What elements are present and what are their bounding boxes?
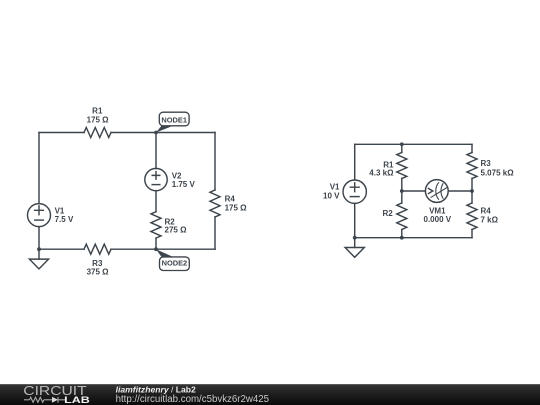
resistor R3 (right circuit) <box>467 153 477 179</box>
svg-text:http://circuitlab.com/c5bvkz6r: http://circuitlab.com/c5bvkz6r2w425 <box>116 394 269 405</box>
footer logo wire-resistor-diode graphic <box>24 397 66 403</box>
voltage source V2 <box>145 168 167 190</box>
junction: NODE1 <box>154 131 158 135</box>
svg-text:NODE1: NODE1 <box>161 116 187 125</box>
svg-text:375 Ω: 375 Ω <box>87 268 110 277</box>
wire: right circuit left branch lower <box>354 203 356 237</box>
wire: middle branch from NODE1 to V2 <box>155 133 157 169</box>
wire: right circuit left branch upper <box>354 144 356 180</box>
wire: right circuit top rail left segment <box>355 143 402 145</box>
node pointer NODE2 <box>156 249 173 257</box>
svg-text:175 Ω: 175 Ω <box>225 204 248 213</box>
svg-text:1.75 V: 1.75 V <box>172 180 196 189</box>
junction: right circuit bottom-left <box>353 236 357 240</box>
resistor R1 <box>84 128 111 138</box>
svg-text:V1: V1 <box>330 182 340 191</box>
wire: middle branch V2 to R2 <box>155 191 157 212</box>
voltage source V1 (right circuit) <box>343 180 366 203</box>
resistor R2 (right circuit) <box>397 203 407 229</box>
wire: left circuit top rail left segment <box>39 132 84 134</box>
junction: right circuit top <box>400 142 404 146</box>
wire: middle branch bottom stub <box>401 230 403 238</box>
junction: NODE2 <box>154 247 158 251</box>
footer bar <box>0 384 540 405</box>
wire: top rail from R1 to NODE1 junction <box>111 132 156 134</box>
svg-text:R3: R3 <box>481 159 492 168</box>
wire: right circuit bottom rail left segment <box>355 237 402 239</box>
node B: NODE2 flag <box>160 257 190 271</box>
wire: middle branch between R1 and junction <box>401 179 403 192</box>
ground (left circuit) <box>29 249 48 269</box>
svg-text:R4: R4 <box>225 195 236 204</box>
wire: left branch lower <box>38 227 40 250</box>
wire: right branch upper <box>214 133 216 191</box>
wire: right circuit top rail right segment <box>402 143 472 145</box>
svg-text:R2: R2 <box>382 209 393 218</box>
junction: right circuit middle-right <box>470 189 474 193</box>
resistor R1 (right circuit) <box>397 153 407 179</box>
wire: right branch bottom stub <box>471 230 473 238</box>
svg-text:liamfitzhenry / Lab2: liamfitzhenry / Lab2 <box>116 384 196 394</box>
node A: NODE1 flag <box>159 112 189 126</box>
wire: voltmeter wire left segment <box>402 190 426 192</box>
wire: right branch lower <box>214 217 216 249</box>
node pointer NODE1 <box>156 126 173 133</box>
svg-text:R3: R3 <box>92 259 103 268</box>
wire: middle branch R2 to NODE2 <box>155 238 157 249</box>
svg-text:4.3 kΩ: 4.3 kΩ <box>369 168 394 177</box>
wire: voltmeter wire right segment <box>448 190 472 192</box>
resistor R4 (right circuit) <box>467 203 477 229</box>
voltage source V1 (left circuit) <box>28 204 51 227</box>
svg-text:V1: V1 <box>55 207 65 216</box>
wire: right circuit bottom rail right segment <box>402 237 472 239</box>
wire: top rail from NODE1 junction to right branch <box>156 132 215 134</box>
wire: bottom rail left segment <box>39 248 84 250</box>
resistor R3 <box>84 244 111 254</box>
resistor R4 (left circuit) <box>210 190 220 217</box>
junction: right circuit bottom-middle <box>400 236 404 240</box>
svg-text:275 Ω: 275 Ω <box>165 225 188 234</box>
svg-text:5.075 kΩ: 5.075 kΩ <box>481 168 515 177</box>
ground (right circuit) <box>345 238 364 258</box>
svg-text:7 kΩ: 7 kΩ <box>481 215 499 224</box>
wire: right branch top stub <box>471 144 473 152</box>
wire: bottom rail from R3 to NODE2 junction <box>111 248 156 250</box>
svg-text:R4: R4 <box>481 206 492 215</box>
voltmeter VM1 <box>425 180 448 203</box>
svg-text:0.000 V: 0.000 V <box>424 215 452 224</box>
junction: left circuit ground node <box>37 247 41 251</box>
junction: right circuit middle-left <box>400 189 404 193</box>
wire: bottom rail from NODE2 junction to right branch <box>156 248 215 250</box>
svg-text:10 V: 10 V <box>323 191 340 200</box>
wire: left branch upper <box>38 133 40 204</box>
svg-text:7.5 V: 7.5 V <box>55 215 74 224</box>
wire: middle branch between junction and R2 <box>401 191 403 203</box>
svg-text:R1: R1 <box>92 107 103 116</box>
svg-text:LAB: LAB <box>64 395 90 405</box>
svg-text:NODE2: NODE2 <box>162 258 188 267</box>
resistor R2 (left circuit) <box>151 212 161 238</box>
wire: middle branch top stub <box>401 144 403 152</box>
wire: right branch between R3 and junction <box>471 179 473 204</box>
svg-text:175 Ω: 175 Ω <box>87 115 110 124</box>
